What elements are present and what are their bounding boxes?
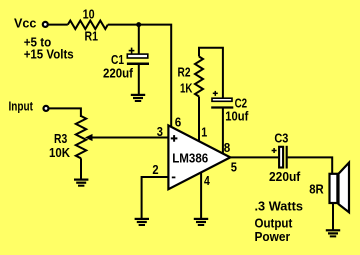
- wire R3 wiper to pin 3: [90, 137, 169, 139]
- svg-text:+15 Volts: +15 Volts: [24, 47, 74, 61]
- svg-text:.3 Watts: .3 Watts: [255, 199, 304, 214]
- svg-text:LM386: LM386: [172, 151, 208, 166]
- wire C2 to pin 8: [222, 109, 224, 154]
- wire Vcc terminal to R1: [48, 24, 67, 26]
- svg-text:Power: Power: [255, 229, 291, 244]
- wire pin 2 to ground: [142, 177, 169, 218]
- wire pin 4 to ground: [200, 172, 202, 218]
- svg-text:3: 3: [157, 124, 163, 139]
- svg-text:1: 1: [201, 125, 207, 140]
- wire speaker to ground: [332, 204, 334, 230]
- ground (pin 2): [135, 219, 149, 225]
- resistor R2: [195, 57, 203, 97]
- wire R2 to pin 1: [198, 97, 200, 143]
- wire R3 to ground: [80, 158, 82, 179]
- ground (R3): [74, 180, 88, 186]
- wire node A to pin 6: [139, 25, 172, 129]
- svg-text:10uf: 10uf: [225, 109, 249, 123]
- terminal Input: [44, 106, 49, 111]
- wire C1 to ground: [138, 65, 140, 94]
- op-amp U1 LM386: [168, 125, 230, 189]
- capacitor C2: [211, 98, 233, 107]
- wire pin 1 to R2 and top loop to C2: [199, 48, 223, 98]
- ground (speaker): [326, 230, 340, 236]
- ground (pin 4): [194, 219, 208, 225]
- svg-text:Input: Input: [9, 99, 34, 113]
- svg-text:8: 8: [224, 140, 231, 155]
- capacitor C1 polarity +: [129, 48, 135, 54]
- R3 wiper arrow: [85, 134, 93, 141]
- wire pin 5 to C3: [230, 156, 278, 158]
- potentiometer R3: [76, 116, 86, 158]
- svg-text:6: 6: [175, 115, 182, 130]
- svg-text:220uf: 220uf: [269, 170, 301, 184]
- op-amp + input marker: [171, 135, 178, 142]
- svg-text:4: 4: [204, 173, 210, 188]
- wire C3 to speaker: [288, 157, 333, 173]
- svg-text:Vcc: Vcc: [14, 16, 36, 30]
- op-amp - input marker: [172, 176, 176, 178]
- svg-text:R3: R3: [54, 132, 67, 146]
- svg-text:C3: C3: [274, 131, 288, 145]
- svg-text:2: 2: [152, 162, 158, 177]
- speaker LS1 (8R): [330, 163, 350, 213]
- capacitor C3: [279, 146, 287, 169]
- wire R1 to node A: [108, 24, 139, 26]
- ground (C1): [131, 95, 145, 101]
- svg-text:220uf: 220uf: [103, 66, 134, 80]
- svg-text:5: 5: [231, 159, 237, 174]
- svg-text:10K: 10K: [49, 146, 70, 160]
- svg-text:R2: R2: [178, 66, 191, 80]
- resistor R1: [68, 21, 108, 29]
- capacitor C1: [127, 54, 149, 64]
- capacitor C3 polarity +: [272, 148, 277, 153]
- junction node A: [136, 22, 141, 27]
- capacitor C2 polarity +: [213, 91, 218, 96]
- wire node A to C1: [138, 25, 140, 54]
- terminal Vcc: [43, 22, 48, 27]
- svg-text:1K: 1K: [180, 81, 193, 95]
- svg-text:R1: R1: [85, 29, 99, 43]
- svg-text:10: 10: [83, 7, 95, 21]
- svg-text:8R: 8R: [309, 182, 324, 197]
- svg-text:C1: C1: [111, 53, 124, 67]
- wire Input to R3: [49, 108, 81, 117]
